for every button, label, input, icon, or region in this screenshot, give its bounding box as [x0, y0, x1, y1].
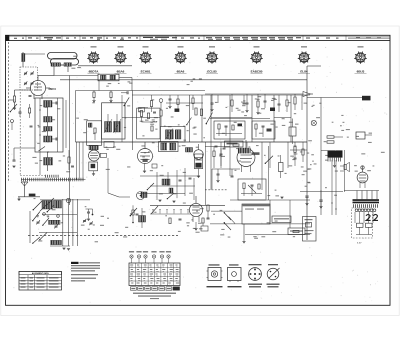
wire long vertical x69: [69, 76, 71, 206]
stage dividers: [189, 95, 191, 142]
pilot lamp circle: [137, 192, 145, 200]
title band right double rule: [348, 37, 390, 39]
switch box S3: [356, 132, 372, 139]
voltage table grid: [129, 263, 180, 286]
aerial symbol: [21, 182, 28, 197]
value labels: [59, 160, 62, 161]
converter valve V1 6BD7A: [26, 76, 50, 99]
title band ticks: [25, 35, 27, 40]
tuning gang trimmers: [83, 220, 86, 222]
bypass cap C20: [210, 94, 213, 111]
cap C24: [264, 94, 267, 108]
value labels: [324, 141, 327, 142]
screen resistor R8: [92, 91, 95, 103]
wire x108 down: [108, 158, 130, 197]
wire right bus y97: [307, 97, 370, 99]
value labels: [198, 223, 202, 224]
wires left section: [15, 89, 31, 91]
svg-text:6BA6: 6BA6: [177, 70, 185, 74]
gang capacitor CV2: [55, 225, 58, 227]
HT feed arrow: [303, 92, 313, 97]
value labels: [187, 84, 190, 85]
2nd IF transformer can T3: [102, 103, 125, 139]
wire x122: [121, 95, 123, 142]
1st IF transformer T2 can: [35, 98, 63, 152]
detector valve V3: [138, 142, 158, 173]
value labels: [118, 83, 120, 84]
dial scale tick row: [21, 178, 86, 182]
value labels: [226, 107, 228, 108]
AGC resistor R2: [13, 90, 16, 110]
tube base diagram 6BD7A: [87, 52, 99, 74]
dial lamp LP2: [66, 198, 70, 202]
surge resistors: [356, 223, 372, 234]
heater pair wires: [300, 150, 345, 215]
wire top bus y90: [76, 90, 206, 92]
aerial wire: [18, 196, 40, 198]
wire y118: [210, 118, 270, 120]
wire bus y94 to HT arrow: [205, 93, 303, 95]
wire x132 vertical: [131, 91, 133, 151]
B+ label block: [362, 96, 371, 101]
value labels: [275, 190, 277, 191]
output valve V5 EL84: [237, 140, 255, 172]
stage boundary x205: [205, 142, 207, 205]
wire y205: [150, 204, 225, 206]
filter choke: [289, 119, 296, 145]
switch S4: [130, 206, 158, 216]
tuning indicator V4: [194, 144, 204, 178]
alignment table: [19, 272, 62, 291]
svg-text:6.3V: 6.3V: [357, 243, 362, 245]
title band text marks: [14, 38, 17, 39]
wire vertical x307: [306, 66, 308, 240]
designators above tube row: [91, 46, 97, 47]
tone resistor R20: [294, 94, 296, 110]
tone switch chain: [132, 205, 139, 223]
wire top right corner: [307, 65, 321, 67]
svg-text:6BU3: 6BU3: [357, 70, 365, 74]
cap C22 with ground: [245, 94, 248, 112]
left lower chain parts: [201, 218, 208, 231]
resistor R30: [139, 208, 146, 228]
svg-text:6BA6: 6BA6: [117, 70, 125, 74]
tube base diagram EABC80: [250, 52, 262, 74]
heater windings: [355, 209, 376, 212]
dark label block: [270, 108, 275, 112]
fuse links: [366, 214, 371, 220]
contacts row: [150, 209, 190, 214]
title band left block: [6, 35, 10, 40]
wire vertical x321: [320, 98, 322, 216]
record changer box: [242, 204, 270, 224]
value labels: [369, 133, 372, 134]
padder resistor blocks: [49, 220, 62, 244]
stage box audio: [252, 121, 275, 139]
resistor R32: [169, 218, 171, 224]
dashed outline record changer: [205, 189, 228, 191]
resistor R24: [327, 136, 343, 138]
AGC box: [87, 121, 102, 146]
value labels: [313, 105, 315, 106]
tube base diagram ECH81: [139, 52, 151, 74]
coil former box: [104, 142, 114, 148]
wire top bus y65.8: [78, 65, 132, 67]
dashed shield box left: [19, 92, 21, 176]
switch S1a: [124, 97, 129, 106]
schematic border frame: [6, 35, 391, 305]
audio box interior: [255, 124, 272, 137]
cathode switch arm: [265, 156, 273, 164]
voltage table valve top circles: [130, 255, 170, 263]
output transformer T5: [321, 150, 343, 167]
svg-text:ALIGNMENT DATA: ALIGNMENT DATA: [32, 272, 49, 275]
secondary wires: [355, 212, 373, 223]
socket diagram P2 (square with small circle): [228, 264, 242, 287]
EL84 interior: [252, 152, 260, 155]
value labels: [340, 125, 342, 126]
switch S2: [206, 113, 213, 125]
1st IF transformer T1 (top): [78, 74, 132, 90]
band switch arms: [32, 212, 49, 244]
rectifier valve V6 6BU3: [357, 166, 368, 188]
left edge switch: [10, 104, 17, 130]
aerial coil L2: [22, 52, 46, 66]
value labels: [234, 122, 237, 123]
screen resistor R16: [231, 94, 233, 112]
earth symbol: [17, 197, 20, 201]
value labels: [106, 147, 108, 148]
socket diagram P4 (circle with diagonal): [267, 264, 280, 287]
coupling network box: [238, 179, 266, 200]
socket diagram P3 (circle with cross pins): [248, 264, 262, 287]
tube base diagram ECL85: [206, 52, 218, 74]
title band rule: [6, 40, 391, 42]
tube base diagram EL84: [298, 52, 310, 74]
value labels: [278, 155, 280, 156]
tube base diagram 6BA6: [174, 52, 186, 74]
middle chains: [243, 95, 303, 112]
oscillator coil L6: [40, 198, 62, 211]
right column chains: [269, 142, 305, 200]
value labels: [34, 198, 36, 199]
wires output stage: [205, 147, 310, 201]
band switch wafer: [33, 201, 60, 217]
value labels: [267, 222, 270, 223]
mains switch cluster: [224, 212, 235, 230]
value labels: [101, 216, 104, 217]
left mid verticals: [68, 142, 83, 180]
note text block: [71, 262, 100, 282]
audio stage verticals: [210, 142, 212, 190]
padder capacitor C7: [13, 159, 16, 161]
trimmer box (dashed): [20, 67, 38, 90]
wire top bus y79.8: [60, 79, 307, 81]
IF amplifier valve V2: [89, 146, 107, 176]
wire y117 segments: [122, 117, 160, 119]
socket diagram P1 (square with circle): [207, 264, 223, 287]
value labels: [152, 99, 154, 100]
cap C30: [179, 218, 182, 220]
label box B: [288, 228, 305, 235]
label box A: [272, 216, 291, 223]
IF bus drop chains: [166, 95, 203, 110]
3rd IF transformer T4 upper can: [161, 127, 186, 143]
svg-text:EABC80: EABC80: [251, 70, 263, 74]
cathode resistor R36: [279, 155, 284, 178]
wire x99 drop: [98, 80, 100, 91]
grid capacitor C3: [29, 95, 32, 97]
resistor R18: [256, 94, 259, 114]
bypass capacitor C5: [19, 108, 22, 117]
earth symbols tuning: [62, 247, 65, 249]
loudspeaker LS1: [340, 162, 350, 171]
wires tuning section: [40, 199, 90, 201]
value labels: [367, 170, 371, 171]
value labels: [127, 105, 130, 106]
resistor R25: [327, 141, 334, 143]
value labels: [187, 130, 189, 131]
audio component field: [138, 168, 200, 203]
electrolytic caps: [305, 190, 322, 208]
left column extra wires: [28, 98, 66, 175]
value labels: [244, 115, 247, 116]
detector box interior: [216, 124, 242, 137]
power transformer T6: [344, 191, 379, 208]
voltage table footer boxes: [131, 287, 180, 290]
svg-text:6BD7A: 6BD7A: [89, 70, 100, 74]
3rd IF transformer T4 lower can: [159, 142, 179, 152]
value labels: [141, 145, 145, 146]
stage box detector: [214, 121, 245, 139]
tube base diagram 6BA6: [114, 52, 126, 74]
labels above voltage table circles: [129, 251, 171, 252]
svg-text:ECH81: ECH81: [141, 70, 151, 74]
gang capacitor CV1: [37, 221, 40, 223]
grid label box: [225, 141, 244, 147]
caps cluster: [216, 169, 233, 182]
svg-text:ECL85: ECL85: [207, 70, 217, 74]
loop antenna L1: [48, 53, 79, 76]
resistor chain R40: [207, 205, 210, 219]
decoupling cap C9: [109, 91, 112, 103]
power box left (pickup): [303, 217, 317, 242]
dial lamp circle: [311, 98, 316, 126]
coil L5: [44, 152, 53, 171]
output valve V7: [189, 196, 202, 230]
svg-text:6BD7A: 6BD7A: [49, 88, 57, 91]
coupling cap C12: [121, 91, 128, 94]
mains dashed box: [352, 208, 373, 238]
switch S1b: [39, 147, 46, 152]
muting cap cluster: [86, 209, 94, 221]
tube base diagram 6BU3: [354, 52, 366, 74]
value labels: [77, 67, 81, 68]
value labels: [312, 161, 314, 162]
value labels: [199, 228, 203, 229]
left IF can lower ticks: [46, 175, 59, 178]
scan speckle: [9, 42, 389, 302]
long dashed line (chassis): [28, 235, 178, 237]
lower verticals: [269, 200, 271, 224]
coil blocks: [186, 148, 193, 153]
small resistor R44: [293, 230, 299, 232]
IF box interior parts: [139, 95, 203, 127]
value labels: [44, 107, 47, 108]
detector area parts: [215, 95, 240, 149]
left shield dashed line: [8, 42, 10, 182]
stage area outline: [76, 91, 311, 143]
small res chains left of valve: [212, 147, 240, 170]
wires lower center: [211, 210, 242, 212]
value labels: [152, 119, 155, 120]
table caption lines: [133, 293, 176, 294]
wire antenna to V1: [54, 75, 78, 77]
IF stage box: [137, 108, 160, 139]
